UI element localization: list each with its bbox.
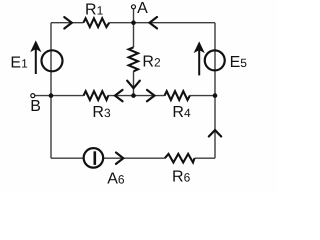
svg-text:R2: R2 bbox=[142, 53, 161, 70]
current arrow top-right pointing left bbox=[150, 17, 158, 28]
wire bottom between A6 and R6 bbox=[102, 157, 165, 159]
wire middle horizontal between R3 and R4 bbox=[108, 95, 165, 97]
node B terminal bbox=[31, 94, 35, 98]
resistor R1 bbox=[83, 18, 109, 27]
wire bottom right of R6 bbox=[195, 157, 216, 159]
svg-text:B: B bbox=[30, 98, 41, 115]
wire middle horizontal from node B stub to R3 bbox=[35, 95, 84, 97]
wire stub up to node A bbox=[133, 9, 135, 23]
current source A6 circle bbox=[84, 148, 104, 168]
svg-text:E1: E1 bbox=[10, 55, 28, 72]
current arrow R2 branch pointing down bbox=[127, 81, 140, 89]
resistor R3 bbox=[84, 91, 109, 100]
wire middle vertical branch below R2 bbox=[133, 71, 135, 95]
wire left branch through E1 bbox=[50, 23, 52, 159]
current arrow mid-left pointing left bbox=[115, 90, 123, 101]
svg-text:A: A bbox=[137, 0, 148, 17]
wire bottom left of A6 bbox=[51, 157, 85, 159]
svg-text:A6: A6 bbox=[107, 170, 125, 187]
resistor R6 bbox=[165, 154, 195, 163]
resistor R2 bbox=[129, 47, 138, 71]
wire top right of R1 bbox=[109, 22, 215, 24]
svg-text:R4: R4 bbox=[172, 104, 191, 121]
voltage source E1 circle bbox=[42, 50, 63, 71]
wire top left of R1 bbox=[51, 22, 83, 24]
svg-text:E5: E5 bbox=[230, 54, 248, 71]
current arrow top-left pointing right bbox=[64, 17, 72, 28]
voltage source E5 circle bbox=[205, 50, 225, 70]
svg-text:R3: R3 bbox=[92, 104, 111, 121]
wire middle vertical branch above R2 bbox=[133, 23, 135, 48]
junction at R2 top bbox=[131, 20, 136, 25]
junction at node B / left branch bbox=[49, 93, 54, 98]
current arrow right branch pointing up bbox=[209, 130, 221, 136]
wire right branch through E5 bbox=[214, 23, 216, 159]
A6 source bar bbox=[94, 151, 97, 165]
node A terminal bbox=[132, 5, 136, 9]
current arrow mid-right pointing right bbox=[147, 90, 155, 101]
svg-text:R1: R1 bbox=[85, 2, 104, 19]
wire middle horizontal right of R4 bbox=[190, 95, 216, 97]
svg-text:R6: R6 bbox=[172, 169, 191, 186]
junction at right branch middle bbox=[213, 93, 218, 98]
resistor R4 bbox=[165, 91, 190, 100]
E1 emf arrow bbox=[31, 42, 40, 75]
junction at R2 bottom center bbox=[131, 93, 136, 98]
current arrow bottom pointing right bbox=[116, 153, 123, 164]
E5 emf arrow bbox=[195, 43, 204, 76]
